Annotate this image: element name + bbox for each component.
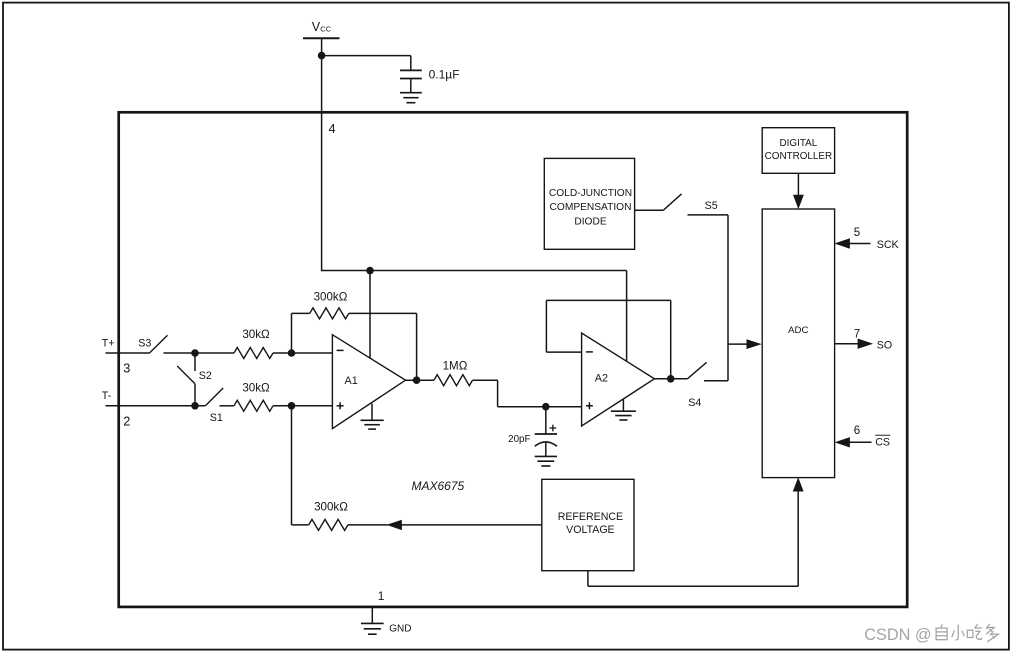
svg-text:A2: A2 xyxy=(595,373,608,385)
svg-text:1: 1 xyxy=(378,589,385,603)
svg-text:S3: S3 xyxy=(138,337,151,349)
svg-text:SCK: SCK xyxy=(877,239,900,251)
svg-text:30kΩ: 30kΩ xyxy=(242,382,270,395)
svg-text:0.1µF: 0.1µF xyxy=(429,68,460,82)
svg-text:S4: S4 xyxy=(688,397,701,409)
svg-text:S1: S1 xyxy=(210,412,223,424)
svg-text:3: 3 xyxy=(123,362,130,376)
svg-text:CS: CS xyxy=(875,437,890,449)
svg-text:MAX6675: MAX6675 xyxy=(412,479,465,493)
svg-text:VOLTAGE: VOLTAGE xyxy=(566,524,614,536)
svg-text:300kΩ: 300kΩ xyxy=(314,290,348,303)
svg-text:20pF: 20pF xyxy=(508,434,530,445)
svg-text:30kΩ: 30kΩ xyxy=(242,328,270,341)
svg-text:S5: S5 xyxy=(705,200,718,212)
svg-text:COLD-JUNCTION: COLD-JUNCTION xyxy=(549,188,632,199)
svg-text:T-: T- xyxy=(102,390,112,402)
svg-text:S2: S2 xyxy=(199,370,212,382)
svg-text:ADC: ADC xyxy=(788,325,808,336)
svg-text:7: 7 xyxy=(854,328,860,340)
svg-text:1MΩ: 1MΩ xyxy=(443,359,468,372)
svg-text:SO: SO xyxy=(877,339,892,351)
svg-text:CSDN @: CSDN @ xyxy=(864,626,931,644)
svg-text:CONTROLLER: CONTROLLER xyxy=(765,151,833,162)
svg-text:300kΩ: 300kΩ xyxy=(314,501,348,514)
svg-text:6: 6 xyxy=(854,425,860,437)
svg-text:REFERENCE: REFERENCE xyxy=(558,511,623,523)
svg-text:DIODE: DIODE xyxy=(574,217,606,228)
svg-text:CC: CC xyxy=(320,25,331,34)
svg-text:A1: A1 xyxy=(345,375,358,387)
svg-text:2: 2 xyxy=(123,414,130,428)
svg-text:4: 4 xyxy=(329,122,336,136)
svg-text:5: 5 xyxy=(854,227,860,239)
svg-text:COMPENSATION: COMPENSATION xyxy=(550,202,632,213)
svg-text:DIGITAL: DIGITAL xyxy=(780,138,818,149)
svg-text:GND: GND xyxy=(389,624,411,635)
svg-text:T+: T+ xyxy=(102,337,115,349)
